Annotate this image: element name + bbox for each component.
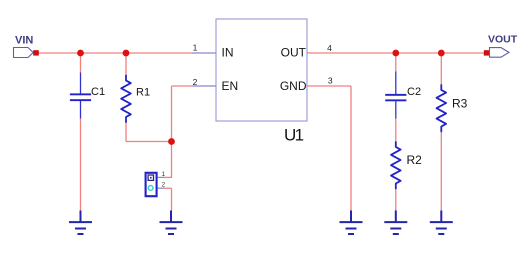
ground under R2 <box>384 211 407 235</box>
svg-text:C1: C1 <box>91 86 105 98</box>
junction on VIN net at R1 <box>123 50 130 57</box>
wire connector pin2 to ground <box>171 188 173 211</box>
wire R3 branch down <box>440 53 442 85</box>
svg-text:2: 2 <box>162 182 166 189</box>
wire C1 bottom to ground <box>80 118 82 211</box>
svg-text:4: 4 <box>327 43 332 53</box>
junction EN/R1/connector node <box>168 138 175 145</box>
pin 1 (IN) stub <box>192 52 216 54</box>
ground under R3 <box>430 211 453 235</box>
svg-text:R3: R3 <box>452 96 468 110</box>
wire R1 to EN node horizontal <box>126 141 172 143</box>
wire GND net horizontal <box>307 85 351 87</box>
resistor R2 <box>391 142 422 189</box>
port VOUT <box>484 34 518 58</box>
junction on OUT net at C2 <box>392 50 399 57</box>
ground under U1 GND <box>340 211 363 235</box>
svg-text:1: 1 <box>162 171 166 178</box>
svg-text:R1: R1 <box>136 87 150 99</box>
wire R3 to ground <box>440 131 442 211</box>
wire R1 branch down from junction <box>125 53 127 76</box>
wire R2 to ground <box>395 188 397 211</box>
wire connector pin1 horizontal <box>164 176 173 178</box>
port VIN <box>14 34 39 57</box>
resistor R3 <box>437 85 468 132</box>
svg-text:EN: EN <box>222 79 239 93</box>
svg-text:GND: GND <box>280 79 307 93</box>
wire OUT net: pin to VOUT port <box>307 52 485 54</box>
ground under C1 <box>69 211 92 235</box>
capacitor C2 <box>385 72 421 119</box>
IC U1 (voltage regulator body) <box>216 19 307 144</box>
svg-text:OUT: OUT <box>281 46 307 60</box>
wire C2 to R2 <box>395 118 397 142</box>
svg-text:VIN: VIN <box>15 34 33 46</box>
svg-text:2: 2 <box>193 77 198 87</box>
wire EN net vertical to connector pin 1 <box>171 86 173 177</box>
junction on VIN net at C1 <box>77 50 84 57</box>
capacitor C1 <box>70 73 105 119</box>
junction on OUT net at R3 <box>438 50 445 57</box>
svg-text:IN: IN <box>222 46 234 60</box>
svg-text:C2: C2 <box>407 86 421 98</box>
connector P1 (2-pin header) <box>146 171 166 196</box>
svg-text:U1: U1 <box>284 125 304 144</box>
pin 2 (EN) stub <box>192 85 216 87</box>
wire C2 branch down <box>395 53 397 72</box>
wire R1 bottom down <box>125 121 127 142</box>
ground under connector <box>160 211 183 235</box>
wire VIN net: port to IN pin <box>39 52 193 54</box>
wire EN net horizontal <box>172 85 193 87</box>
svg-text:3: 3 <box>328 75 333 85</box>
wire GND net vertical to ground <box>350 86 352 211</box>
svg-text:1: 1 <box>193 43 198 53</box>
svg-text:VOUT: VOUT <box>488 34 518 46</box>
wire connector pin2 horizontal <box>164 187 172 189</box>
resistor R1 <box>121 76 150 123</box>
svg-text:R2: R2 <box>407 153 423 167</box>
wire C1 branch down from junction <box>80 53 82 73</box>
